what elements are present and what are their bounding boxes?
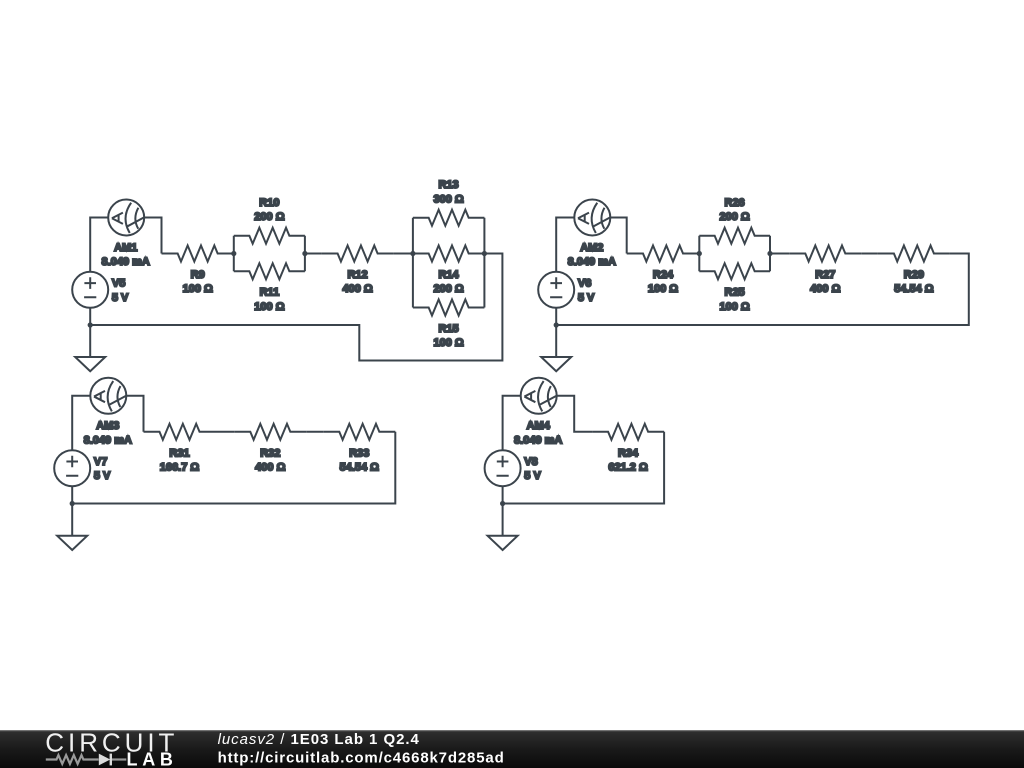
svg-text:5 V: 5 V (578, 292, 595, 304)
svg-text:AM3: AM3 (96, 420, 119, 432)
node right junction of R13 R14 R15 (482, 251, 487, 256)
wire return path circuit 3 (72, 432, 395, 504)
svg-text:400 Ω: 400 Ω (255, 462, 285, 474)
node V6 ground node (554, 322, 559, 327)
resistor R29 (878, 246, 950, 296)
svg-text:200 Ω: 200 Ω (719, 211, 749, 223)
ground (57, 536, 87, 550)
svg-text:200 Ω: 200 Ω (433, 283, 463, 295)
svg-text:R27: R27 (815, 269, 835, 281)
svg-text:400 Ω: 400 Ω (342, 283, 372, 295)
resistor R31 (144, 424, 216, 474)
resistor R14 (413, 246, 485, 296)
wire to R12 (305, 253, 322, 255)
svg-text:R13: R13 (439, 179, 459, 191)
wire AM4 to R34 (557, 396, 592, 432)
voltage source V5 (72, 272, 129, 308)
wire AM2 to R24 (610, 218, 626, 254)
node left junction of R13 R14 R15 (410, 251, 415, 256)
svg-text:R14: R14 (439, 269, 460, 281)
svg-text:R32: R32 (260, 447, 280, 459)
node R10-R11-R12 junction (302, 251, 307, 256)
ammeter AM2 (568, 200, 616, 269)
wire V7 to ground (71, 486, 73, 536)
svg-text:5 V: 5 V (112, 292, 129, 304)
svg-text:R15: R15 (439, 323, 459, 335)
node V5 ground node (88, 322, 93, 327)
svg-text:8.049 mA: 8.049 mA (568, 256, 616, 268)
CircuitLab logo resistor squiggle (46, 755, 99, 764)
svg-text:R24: R24 (653, 269, 674, 281)
resistor R34 (592, 424, 664, 474)
svg-text:300 Ω: 300 Ω (433, 194, 463, 206)
resistor R12 (322, 246, 394, 296)
svg-text:lucasv2 / 1E03 Lab 1 Q2.4: lucasv2 / 1E03 Lab 1 Q2.4 (218, 731, 420, 748)
wire V6 to ground (555, 308, 557, 357)
wire R12 to parallel group (394, 253, 413, 255)
resistor R26 (699, 197, 770, 244)
resistor R11 (234, 263, 305, 313)
svg-text:54.54 Ω: 54.54 Ω (894, 283, 934, 295)
resistor R13 (413, 179, 485, 226)
wire V5 to ground (89, 308, 91, 357)
ammeter AM3 (84, 378, 132, 447)
svg-text:R12: R12 (348, 269, 368, 281)
wire V7 to AM3 (72, 396, 90, 450)
CircuitLab logo diode (99, 754, 112, 766)
wire parallel box R13 R14 R15 sides (413, 218, 485, 308)
svg-text:AM2: AM2 (580, 242, 603, 254)
svg-text:100 Ω: 100 Ω (433, 337, 463, 349)
svg-text:8.049 mA: 8.049 mA (102, 256, 150, 268)
svg-text:http://circuitlab.com/c4668k7d: http://circuitlab.com/c4668k7d285ad (218, 750, 505, 767)
wire return path circuit 4 (503, 432, 664, 504)
voltage source V6 (538, 272, 595, 308)
resistor R27 (789, 246, 861, 296)
node R9-R10-R11 junction (231, 251, 236, 256)
svg-text:LAB: LAB (127, 749, 178, 768)
wire V5 to AM1 (90, 218, 108, 272)
wire R32 to R33 (306, 431, 323, 433)
resistor R25 (699, 263, 770, 313)
resistor R15 (413, 300, 485, 350)
svg-text:621.2 Ω: 621.2 Ω (608, 462, 648, 474)
wire AM1 to R9 (144, 218, 161, 254)
svg-text:V7: V7 (94, 456, 107, 468)
svg-text:100 Ω: 100 Ω (254, 301, 284, 313)
wire R27 to R29 (861, 253, 878, 255)
svg-text:R31: R31 (169, 447, 189, 459)
resistor R32 (234, 424, 306, 474)
svg-text:R26: R26 (725, 197, 745, 209)
ground (488, 536, 518, 550)
resistor R33 (323, 424, 395, 474)
node R25-R26-R27 junction (767, 251, 772, 256)
CircuitLab logo diode wire (112, 758, 126, 760)
voltage source V8 (485, 450, 542, 486)
svg-text:V8: V8 (524, 456, 537, 468)
svg-text:8.049 mA: 8.049 mA (84, 434, 132, 446)
ammeter AM1 (102, 200, 150, 269)
svg-text:200 Ω: 200 Ω (254, 211, 284, 223)
svg-text:5 V: 5 V (94, 470, 111, 482)
svg-text:V6: V6 (578, 278, 591, 290)
wire AM3 to R31 (126, 396, 143, 432)
wire parallel box R25 R26 sides (699, 236, 770, 272)
voltage source V7 (54, 450, 111, 486)
ground (541, 357, 571, 371)
resistor R9 (162, 246, 234, 296)
svg-text:100 Ω: 100 Ω (183, 283, 213, 295)
svg-text:R33: R33 (349, 447, 369, 459)
svg-text:100 Ω: 100 Ω (719, 301, 749, 313)
svg-text:AM1: AM1 (114, 242, 137, 254)
wire V6 to AM2 (556, 218, 574, 272)
resistor R24 (627, 246, 700, 296)
ground (75, 357, 105, 371)
wire to R27 (770, 253, 789, 255)
node V8 ground node (500, 501, 505, 506)
svg-text:AM4: AM4 (527, 420, 551, 432)
svg-text:8.049 mA: 8.049 mA (514, 434, 562, 446)
wire V8 to ground (502, 486, 504, 536)
svg-text:5 V: 5 V (524, 470, 541, 482)
wire return path circuit 2 (556, 254, 969, 326)
resistor R10 (234, 197, 305, 244)
svg-text:R34: R34 (618, 447, 639, 459)
svg-text:R25: R25 (725, 287, 745, 299)
footer bar (0, 730, 1024, 768)
svg-text:400 Ω: 400 Ω (810, 283, 840, 295)
wire R31 to R32 (216, 431, 235, 433)
svg-text:R11: R11 (260, 287, 280, 299)
svg-text:V5: V5 (112, 278, 125, 290)
ammeter AM4 (514, 378, 562, 447)
svg-text:R9: R9 (191, 269, 205, 281)
wire parallel box R10 R11 sides (234, 236, 305, 272)
wire return path circuit 1 (90, 254, 502, 361)
wire V8 to AM4 (503, 396, 521, 450)
node R24-R25-R26 junction (697, 251, 702, 256)
svg-text:R10: R10 (259, 197, 279, 209)
svg-text:54.54 Ω: 54.54 Ω (340, 462, 380, 474)
svg-text:R29: R29 (904, 269, 924, 281)
svg-text:100 Ω: 100 Ω (648, 283, 678, 295)
node V7 ground node (70, 501, 75, 506)
svg-text:166.7 Ω: 166.7 Ω (160, 462, 200, 474)
